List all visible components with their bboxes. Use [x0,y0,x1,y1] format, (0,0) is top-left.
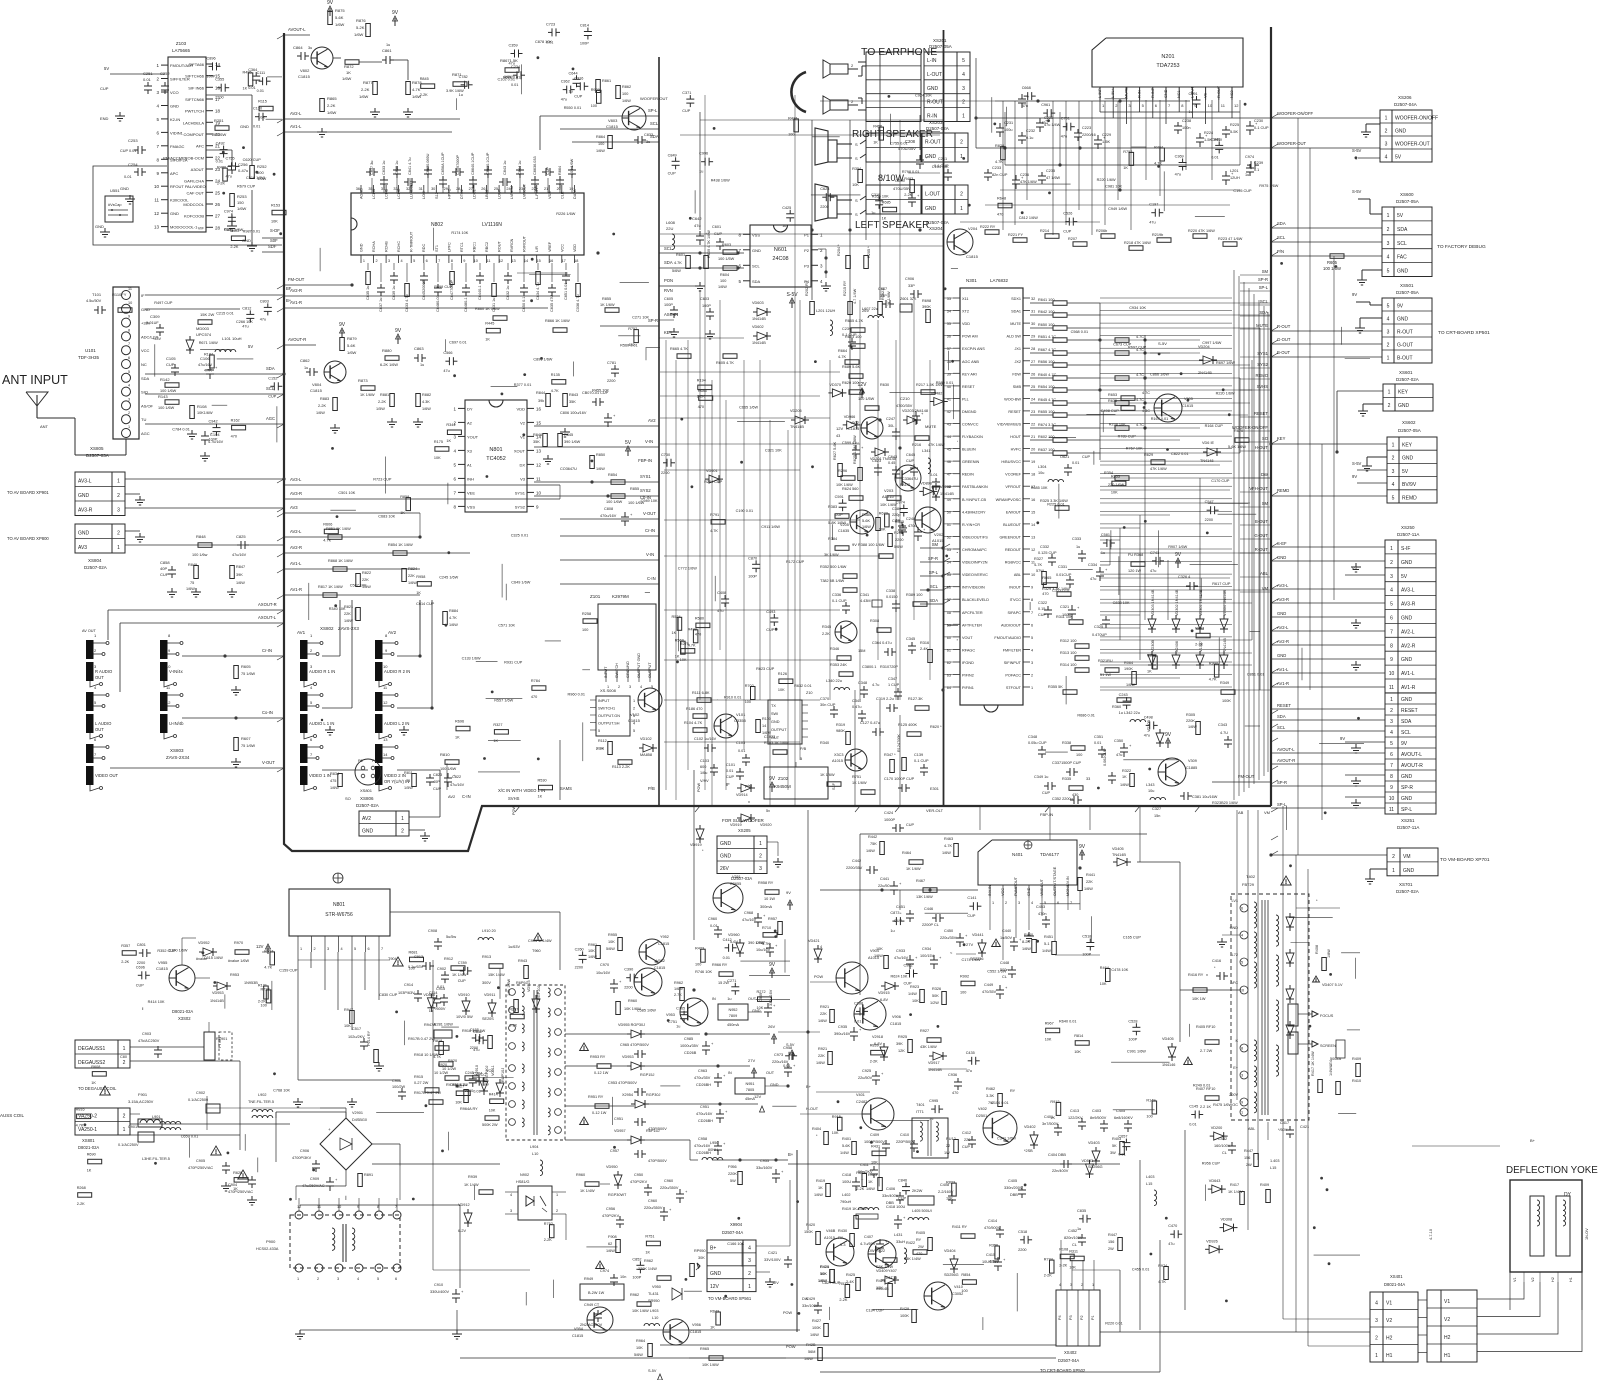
svg-text:SCL: SCL [1277,725,1286,730]
svg-text:5-8K 1/6W: 5-8K 1/6W [828,521,846,525]
svg-text:S-5V: S-5V [786,292,798,298]
svg-text:C858: C858 [160,560,170,565]
svg-text:TU: TU [141,417,146,422]
svg-text:R-OUT: R-OUT [1397,329,1413,335]
svg-text:R960: R960 [576,1173,585,1177]
svg-text:122/2KV: 122/2KV [1068,1116,1083,1120]
wires N201 pins to bus [1099,100,1101,112]
svg-text:CUP: CUP [574,94,582,98]
svg-text:VD955 RGP30J: VD955 RGP30J [618,1023,645,1027]
svg-text:1: 1 [1241,1111,1243,1115]
svg-text:9V: 9V [1340,736,1345,741]
svg-text:R463: R463 [944,837,953,841]
svg-text:VD915: VD915 [878,991,890,995]
resistor R142 [165,383,179,388]
svg-text:450mA: 450mA [727,1023,739,1027]
svg-text:POW: POW [512,806,516,815]
svg-text:AUDIO L 1 IN: AUDIO L 1 IN [309,721,334,726]
svg-text:V46B: V46B [826,1229,836,1233]
svg-text:VIDEO OUT: VIDEO OUT [95,773,118,778]
svg-text:R891: R891 [364,1173,373,1177]
svg-text:GND: GND [1401,697,1413,703]
svg-text:FM-OUT: FM-OUT [288,277,305,282]
svg-text:C348: C348 [1028,735,1037,739]
slant ticks left border [277,35,284,39]
capacitor C2xx [1222,129,1230,131]
svg-text:C844 1u: C844 1u [518,161,522,175]
svg-text:KEY ARI: KEY ARI [962,372,977,376]
svg-text:C973: C973 [774,1053,783,1057]
jack R AUDIO OUT [86,640,94,659]
svg-text:R877: R877 [363,80,373,85]
wire - left block right border [658,57,660,806]
svg-text:2.2K: 2.2K [822,632,830,636]
svg-text:1: 1 [363,259,365,263]
svg-text:C965 470P/500V: C965 470P/500V [620,1043,649,1047]
jack AUDIO L 1 IN [300,692,308,711]
svg-text:AV3-R: AV3-R [78,507,93,513]
wire - left board outline (thick) [284,33,1271,851]
jack U-IN [160,692,168,711]
svg-text:C425: C425 [782,206,791,210]
svg-text:10: 10 [154,184,160,189]
svg-text:35: 35 [947,322,951,326]
svg-text:INOUT: INOUT [1009,586,1021,590]
svg-text:GREENIN: GREENIN [962,460,980,464]
svg-text:5: 5 [413,259,415,263]
svg-text:FDW: FDW [1012,372,1021,376]
svg-text:R921: R921 [818,1047,827,1051]
svg-text:9: 9 [1390,657,1393,663]
svg-text:C210: C210 [900,396,910,401]
svg-text:R531 1/6W: R531 1/6W [224,228,243,232]
svg-text:DY: DY [467,406,473,411]
FBT secondary windings [1276,915,1279,946]
transistor V408 A1015 right [826,1238,854,1266]
svg-text:R957: R957 [768,917,777,921]
svg-text:LA75665: LA75665 [172,48,191,53]
IC N801 TC4052 [465,400,527,512]
svg-text:R322: R322 [1122,769,1131,773]
svg-text:4.7u: 4.7u [872,683,879,687]
svg-text:HOUT: HOUT [1010,435,1021,439]
svg-text:H2: H2 [1444,1335,1451,1341]
wire middle column verticals [665,340,667,790]
capacitor C863 [417,354,419,362]
diode VD917 [933,1052,943,1060]
svg-text:2: 2 [123,1060,126,1066]
svg-text:P/B: P/B [648,786,655,791]
svg-text:V954: V954 [574,1327,583,1331]
transistor V803 C1815 [622,106,646,130]
svg-text:Cr-IN: Cr-IN [262,648,272,653]
svg-text:VREF: VREF [548,241,552,252]
wire DW bus vertical [796,1150,798,1332]
svg-text:RGP10J: RGP10J [537,986,541,1000]
svg-text:R834: R834 [330,772,339,776]
svg-text:AXOUT-L: AXOUT-L [258,615,277,620]
svg-text:C234: C234 [511,65,520,69]
svg-text:4: 4 [357,1277,359,1281]
svg-text:2.2 1K: 2.2 1K [1200,1105,1211,1109]
svg-text:C415: C415 [986,1253,995,1257]
svg-text:C905: C905 [196,1159,205,1163]
svg-text:SP-L: SP-L [1259,285,1269,290]
svg-text:C812: C812 [242,306,251,310]
svg-text:1: 1 [1031,686,1033,690]
svg-text:R312 100: R312 100 [1060,639,1076,643]
svg-text:3u: 3u [308,46,312,50]
svg-text:9V: 9V [1165,732,1172,738]
svg-text:U101: U101 [85,348,96,353]
IC N801 STR-W6756 [333,873,343,883]
svg-text:L10: L10 [652,1316,658,1320]
svg-text:SP-L: SP-L [1277,802,1287,807]
svg-text:CO3647U: CO3647U [560,467,577,471]
svg-text:R953: R953 [230,973,239,977]
svg-text:R360: R360 [1112,705,1121,709]
svg-text:1N414B: 1N414B [928,1068,942,1072]
svg-text:H1: H1 [1569,1277,1573,1282]
svg-text:1: 1 [1392,443,1395,449]
svg-text:1/6W: 1/6W [186,587,195,591]
svg-text:2200: 2200 [820,205,828,209]
svg-text:0-01: 0-01 [710,924,718,928]
svg-text:S-5V: S-5V [1352,461,1362,466]
svg-text:KOFCOOB: KOFCOOB [184,214,204,219]
svg-text:B-2W 1W: B-2W 1W [588,1291,605,1295]
svg-text:R125 400K: R125 400K [898,723,917,727]
svg-text:R377 0.01: R377 0.01 [514,383,532,387]
svg-text:1u: 1u [420,363,424,367]
svg-text:D2507-05A: D2507-05A [929,44,952,49]
svg-text:VD919: VD919 [730,823,742,827]
wire N301 left support verticals [859,300,861,700]
svg-text:0.1/AC2500: 0.1/AC2500 [188,1098,208,1102]
svg-text:5v: 5v [766,809,770,813]
svg-text:C343: C343 [1218,723,1227,727]
svg-text:790uH: 790uH [840,1200,851,1204]
resistor R670 [1235,438,1249,443]
svg-text:FAC: FAC [1397,255,1407,261]
svg-text:2-2K: 2-2K [596,747,604,751]
resistor R110b [756,720,761,733]
resistor R665 [677,354,691,359]
svg-text:E+: E+ [1233,1066,1239,1070]
svg-text:XS204: XS204 [929,226,943,231]
diode VD914 [741,784,751,792]
svg-text:1K: 1K [818,1186,823,1190]
svg-text:10u: 10u [1038,471,1044,475]
svg-text:2W: 2W [1108,1247,1114,1251]
filler cluster bottom mid [684,1290,702,1292]
svg-text:C516 1/6W: C516 1/6W [246,176,265,180]
svg-text:ALD SW: ALD SW [1006,335,1021,339]
svg-text:LPFC: LPFC [447,242,451,252]
svg-text:R674 3.3C: R674 3.3C [1038,423,1056,427]
svg-text:1: 1 [1390,546,1393,552]
svg-text:POW: POW [697,783,701,792]
resistor R219 [887,496,901,501]
svg-text:0.01: 0.01 [143,77,152,82]
svg-text:R327: R327 [493,723,502,727]
svg-text:MUTE: MUTE [1124,87,1128,98]
svg-text:5-6K: 5-6K [862,519,870,523]
svg-text:VM: VM [1403,854,1411,860]
svg-text:R354: R354 [852,167,861,171]
svg-text:3: 3 [1390,574,1393,580]
svg-text:R650 100: R650 100 [1038,323,1054,327]
svg-text:C963: C963 [698,1069,707,1073]
svg-text:R-TMROUT: R-TMROUT [410,231,414,252]
svg-text:R456: R456 [873,125,882,129]
svg-text:24: 24 [1031,397,1035,401]
svg-text:30: 30 [431,187,435,191]
svg-text:R557 1/6W: R557 1/6W [494,699,513,703]
svg-text:1/6W: 1/6W [327,110,337,115]
wire extra middle verticals [704,95,706,790]
diode VD203 [907,416,917,424]
diode VD919 [696,829,704,839]
svg-text:VDD: VDD [517,406,526,411]
svg-text:9V: 9V [1401,741,1408,747]
svg-text:OUT: OUT [95,727,104,732]
svg-text:GND: GND [720,854,732,860]
svg-text:1K: 1K [873,141,878,145]
svg-text:CUP: CUP [166,362,175,367]
svg-text:C974: C974 [600,1269,609,1273]
svg-text:C697 0.01: C697 0.01 [449,340,467,344]
svg-text:FU R368: FU R368 [1128,553,1143,557]
svg-text:220u/350V: 220u/350V [660,1186,679,1190]
svg-text:14: 14 [524,259,528,263]
svg-text:5V: 5V [1402,469,1409,475]
svg-text:R637 100: R637 100 [1038,448,1054,452]
svg-text:C1815: C1815 [310,388,323,393]
svg-text:31: 31 [419,187,423,191]
svg-text:L-OUT: L-OUT [927,72,942,78]
svg-text:100P: 100P [209,438,218,442]
capacitor C2xx [984,172,992,174]
svg-text:L431: L431 [894,1233,902,1237]
svg-text:SCL: SCL [1401,730,1411,736]
svg-text:R388 100 1/6W: R388 100 1/6W [858,543,885,547]
svg-text:1K: 1K [416,591,421,595]
resistor R312 [1075,644,1089,649]
svg-text:2200/35V: 2200/35V [846,866,863,870]
svg-text:22n/400V: 22n/400V [1052,1169,1069,1173]
svg-text:1 CUP: 1 CUP [888,683,900,687]
resistor R854c [611,480,625,485]
svg-text:44: 44 [947,435,951,439]
svg-text:9V: 9V [852,542,857,547]
svg-text:D2507-05A: D2507-05A [1398,428,1421,433]
svg-text:G-OUT: G-OUT [1255,533,1269,538]
svg-text:C235: C235 [1046,169,1055,173]
svg-text:6: 6 [368,947,370,951]
svg-text:GND: GND [927,86,939,92]
svg-text:VD370: VD370 [829,383,841,387]
svg-text:N952: N952 [728,1008,737,1012]
svg-text:AV3-L: AV3-L [1401,588,1415,594]
svg-text:R958 RY: R958 RY [758,881,774,885]
capacitor C833 [637,136,639,144]
svg-text:WOOFER-ON/OFF: WOOFER-ON/OFF [1277,111,1313,116]
svg-text:2200/16: 2200/16 [1082,133,1096,137]
svg-text:AV2: AV2 [648,418,656,423]
svg-text:C417: C417 [1280,1121,1289,1125]
svg-text:C781: C781 [607,361,616,365]
svg-text:R319: R319 [836,723,845,727]
svg-text:C8440-1: C8440-1 [478,285,482,300]
svg-text:V202: V202 [934,532,944,537]
diode VD102 [643,744,653,752]
svg-text:R-IN-: R-IN- [1138,88,1142,98]
svg-text:R408: R408 [1315,945,1319,954]
resistor R811 [412,774,417,787]
svg-text:R953 RY: R953 RY [590,1055,606,1059]
svg-text:1K: 1K [455,736,460,740]
resistor R603 [723,250,737,255]
svg-text:R355 5K: R355 5K [1048,685,1063,689]
svg-text:ZAVS-2X3: ZAVS-2X3 [338,626,359,631]
junction dots scatter [974,116,977,119]
svg-text:GND: GND [78,493,90,499]
svg-text:R913: R913 [482,955,491,959]
svg-text:SE20S: SE20S [482,1017,494,1021]
svg-text:V-IN/4x: V-IN/4x [169,669,184,674]
svg-text:V204: V204 [968,226,978,231]
svg-text:1N414B: 1N414B [210,999,224,1003]
svg-text:C231: C231 [1004,121,1013,125]
svg-text:0-1 CUP: 0-1 CUP [914,759,929,763]
resistor R605 [1330,254,1344,258]
wire STR pins bus [298,959,390,961]
svg-text:XS401: XS401 [1390,1274,1403,1279]
svg-text:V803: V803 [608,118,618,123]
svg-text:C837 3u: C837 3u [370,161,374,175]
diode VD30B2 [1156,733,1164,743]
svg-text:R665 4.7K: R665 4.7K [670,347,688,351]
svg-text:61: 61 [947,648,951,652]
svg-text:1/6W: 1/6W [814,1193,823,1197]
svg-text:5-2K: 5-2K [356,25,365,30]
svg-text:R308: R308 [870,619,879,623]
svg-text:C782: C782 [459,75,468,79]
svg-text:C449: C449 [984,983,993,987]
svg-text:V101: V101 [736,712,746,717]
svg-text:11: 11 [128,287,132,291]
svg-text:47k/AC250V: 47k/AC250V [138,1039,160,1043]
svg-text:R427: R427 [812,1319,821,1323]
svg-text:XS805: XS805 [90,446,104,451]
svg-text:C406: C406 [886,1187,895,1191]
svg-text:C914: C914 [404,983,413,987]
wires XS402 up [1060,1260,1062,1290]
svg-text:1/6W: 1/6W [596,467,605,471]
wire node [1345,741,1385,743]
svg-text:CUP: CUP [546,167,550,175]
svg-text:SIFTA66: SIFTA66 [189,62,205,67]
svg-text:R AUDIO: R AUDIO [95,669,113,674]
resistor R868 [333,567,347,572]
svg-text:33: 33 [947,297,951,301]
svg-text:X3C3: X3C3 [834,753,844,757]
svg-text:C-IN: C-IN [462,794,471,799]
svg-text:1/6W: 1/6W [866,1187,875,1191]
transistor V203 A1015 [895,465,921,491]
svg-text:64: 64 [947,686,951,690]
svg-text:Z103: Z103 [176,41,187,46]
svg-text:B+: B+ [788,1152,794,1157]
svg-text:E/WOUT: E/WOUT [1006,510,1022,514]
svg-text:1u/50V: 1u/50V [1000,936,1013,940]
wire VM [1271,854,1387,856]
svg-text:22u/50V: 22u/50V [858,1076,873,1080]
wire N201 bottom bus [1100,111,1240,113]
svg-text:C936: C936 [948,1073,957,1077]
svg-text:VD917: VD917 [928,1061,940,1065]
svg-text:47u/16V: 47u/16V [894,956,909,960]
svg-text:1000P: 1000P [884,818,895,822]
svg-text:C340: C340 [852,699,861,703]
svg-text:R447: R447 [1244,1149,1253,1153]
svg-text:2-2K: 2-2K [904,193,912,197]
jack VIDEO 1 IN [300,744,308,763]
svg-text:V401: V401 [856,1093,865,1097]
diode VD205 [795,416,805,424]
svg-text:16: 16 [536,406,542,411]
wires top N201 to bus [976,117,1271,119]
svg-text:GND: GND [771,720,780,724]
svg-text:V1: V1 [1513,1277,1517,1282]
svg-text:10K: 10K [434,456,441,460]
svg-text:C903: C903 [142,1032,151,1036]
filler cluster audio switch mid [453,374,456,377]
svg-text:STFOUT: STFOUT [1006,686,1022,690]
transistor V401 C2482 [862,1098,894,1130]
svg-text:AUDIO L 2 IN: AUDIO L 2 IN [384,721,409,726]
svg-text:R321RU: R321RU [1098,659,1113,663]
svg-text:R884: R884 [449,609,458,613]
svg-text:S: S [855,156,858,161]
svg-text:8: 8 [1241,1047,1243,1051]
svg-text:3W: 3W [1110,1151,1116,1155]
svg-text:10u/16V: 10u/16V [756,948,771,952]
resistor R607 75ohm [234,738,239,751]
svg-text:R467: R467 [916,879,925,883]
transistor V204 C1815 [947,229,973,255]
svg-text:36: 36 [947,335,951,339]
svg-text:OUTPUT.SH: OUTPUT.SH [598,722,620,726]
svg-text:C950: C950 [634,1173,643,1177]
svg-text:V950: V950 [652,1285,661,1289]
svg-text:10: 10 [474,259,478,263]
svg-text:1: 1 [123,1127,126,1133]
svg-text:AV OUT: AV OUT [82,629,97,633]
svg-text:S12: S12 [435,192,439,199]
capacitor C2xx [1012,179,1020,181]
svg-text:SVHS: SVHS [1257,384,1269,389]
svg-text:C3355: C3355 [734,718,747,723]
svg-text:R422: R422 [906,1241,915,1245]
svg-text:C251: C251 [143,71,153,76]
svg-text:0.01: 0.01 [216,160,223,164]
svg-text:B+: B+ [806,1084,812,1089]
svg-text:AV1-R: AV1-R [1277,681,1289,686]
svg-text:47: 47 [947,473,951,477]
svg-text:R340: R340 [820,741,829,745]
